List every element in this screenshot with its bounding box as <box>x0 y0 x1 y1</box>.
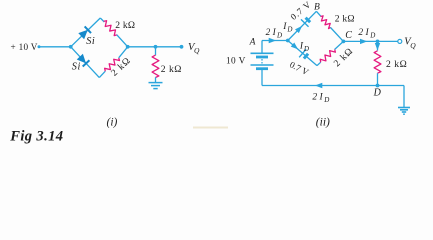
diode D2 Si <box>76 54 89 67</box>
ground (ii) <box>398 108 410 115</box>
svg-text:2 I: 2 I <box>312 92 323 102</box>
node D <box>376 84 380 88</box>
battery cell 0.7V top (B side) <box>301 16 312 27</box>
terminal dot +10V <box>38 45 41 48</box>
svg-text:2 kΩ: 2 kΩ <box>115 20 135 31</box>
svg-text:2 kΩ: 2 kΩ <box>386 59 407 70</box>
svg-text:C: C <box>345 30 352 41</box>
svg-text:2 kΩ: 2 kΩ <box>335 14 355 25</box>
svg-text:Q: Q <box>410 41 416 50</box>
resistor R2 2 kOhm bottom-right edge (i) <box>99 47 127 78</box>
wire C to VQ with arrow 2ID <box>343 39 398 44</box>
svg-text:D: D <box>373 88 382 99</box>
svg-text:D: D <box>303 45 309 53</box>
resistor R1 2 kOhm top-right edge (i) <box>100 18 127 47</box>
current arrow into shunt resistor (ii) <box>375 41 380 50</box>
svg-text:Si: Si <box>86 36 95 47</box>
label 2 ID top-left <box>266 28 282 40</box>
svg-text:D: D <box>323 96 329 104</box>
battery cell 0.7V bottom <box>299 49 309 60</box>
diode D1 Si <box>78 26 91 39</box>
svg-text:(i): (i) <box>107 116 118 128</box>
node C dot <box>342 40 346 44</box>
svg-text:D: D <box>286 26 292 34</box>
battery V1 10V <box>251 41 274 86</box>
wire output (i) <box>128 46 182 48</box>
svg-text:2 I: 2 I <box>358 28 369 38</box>
node left vertex (i) <box>69 45 73 49</box>
terminal open circle VQ (ii) <box>398 39 402 43</box>
svg-text:Q: Q <box>194 46 200 55</box>
svg-text:Fig 3.14: Fig 3.14 <box>9 129 63 145</box>
wire input to bridge <box>39 46 71 48</box>
wire bottom return with arrow 2ID <box>262 83 404 88</box>
label 2 ID right <box>358 28 375 40</box>
label ID bottom-left edge <box>299 42 309 54</box>
resistor R6 2 kOhm shunt (ii) <box>374 51 381 86</box>
svg-text:A: A <box>249 37 256 47</box>
node junction (ii) <box>376 40 380 44</box>
label 2 ID bottom <box>312 92 329 104</box>
resistor R4 2 kOhm top-right edge (ii) <box>316 11 343 41</box>
label VQ (i) <box>188 42 200 55</box>
svg-text:(ii): (ii) <box>316 116 330 128</box>
svg-text:2 kΩ: 2 kΩ <box>161 64 182 75</box>
terminal dot VQ (i) <box>180 45 184 49</box>
svg-text:2 I: 2 I <box>266 28 277 38</box>
wire A to bridge with arrow 2ID <box>262 38 288 43</box>
svg-text:D: D <box>369 32 375 40</box>
label ID top-left edge <box>282 22 292 34</box>
node right vertex (i) <box>126 45 130 49</box>
ground (i) <box>149 83 163 89</box>
svg-text:10 V: 10 V <box>226 56 246 66</box>
wire bottom-left edge (i) <box>71 47 100 78</box>
node junction (i) <box>154 45 158 49</box>
node left vertex (ii) <box>286 39 290 43</box>
label VQ (ii) <box>404 36 416 50</box>
wire top-left edge (i) <box>71 18 101 47</box>
svg-text:D: D <box>276 31 282 39</box>
resistor R3 2 kOhm shunt (i) <box>152 47 159 83</box>
wire top-left edge (ii) with ID arrow <box>288 11 317 40</box>
scan artifact line <box>193 127 228 129</box>
wire bottom-left edge (ii) with ID arrow <box>288 41 317 66</box>
svg-text:+ 10 V: + 10 V <box>11 42 38 52</box>
resistor R5 2 kOhm bottom-right edge (ii) <box>317 41 343 65</box>
wire down to ground (ii) <box>403 86 405 108</box>
svg-text:Si: Si <box>72 61 81 72</box>
